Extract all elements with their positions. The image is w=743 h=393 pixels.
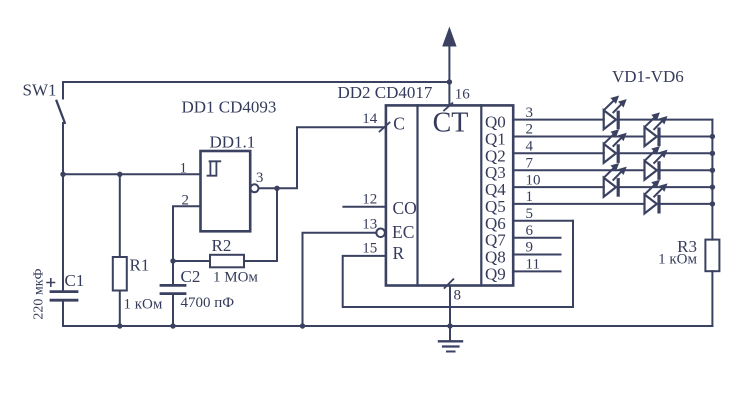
- op-amp U1 : NAND gate DD1.1: [201, 151, 259, 231]
- pin 16 slash: [444, 103, 452, 110]
- svg-text:CO: CO: [393, 198, 417, 218]
- node bus r1: [710, 134, 715, 139]
- svg-text:9: 9: [526, 240, 534, 256]
- wire Q3 row: [513, 169, 712, 171]
- LED VD5: [604, 165, 625, 197]
- node A (SW1 / C1 / pin1): [60, 172, 65, 177]
- svg-text:DD1.1: DD1.1: [210, 133, 256, 152]
- node pin16 / top rail: [447, 79, 452, 84]
- svg-text:CT: CT: [433, 108, 469, 139]
- resistor R2: [173, 188, 277, 267]
- node bus r2: [710, 151, 715, 156]
- svg-text:11: 11: [526, 257, 540, 273]
- node bus r3: [710, 168, 715, 173]
- LED VD4: [645, 148, 666, 180]
- right pin number labels: [526, 105, 541, 273]
- node pin13 bottom: [300, 323, 305, 328]
- wire pin1 rail: [63, 173, 201, 175]
- node R2/C2/pin2: [170, 258, 175, 263]
- LED VD2: [645, 114, 666, 146]
- svg-text:12: 12: [362, 192, 377, 208]
- pin 8 slash: [445, 279, 454, 288]
- wire pin16 / power: [448, 45, 450, 105]
- svg-text:1 МОм: 1 МОм: [213, 270, 258, 286]
- svg-text:Q9: Q9: [485, 264, 506, 283]
- node output/R2: [274, 186, 279, 191]
- svg-text:C1: C1: [65, 271, 85, 290]
- node R1 bottom: [117, 323, 122, 328]
- svg-text:R1: R1: [130, 256, 150, 275]
- svg-text:13: 13: [362, 217, 377, 233]
- svg-text:4: 4: [526, 139, 534, 155]
- svg-text:1 кОм: 1 кОм: [658, 252, 697, 268]
- capacitor C1: [47, 174, 77, 326]
- LED VD3: [604, 131, 625, 163]
- node bus r5: [710, 201, 715, 206]
- svg-text:EC: EC: [392, 222, 414, 242]
- svg-text:DD2 CD4017: DD2 CD4017: [338, 83, 433, 102]
- pin C slash: [380, 123, 390, 132]
- capacitor C2: [161, 261, 185, 326]
- wire pin8: [449, 286, 451, 327]
- wire pin2: [173, 206, 201, 261]
- node B (R1 top): [117, 172, 122, 177]
- wire bottom rail: [63, 325, 712, 327]
- wire Q9 pin11 stub: [513, 270, 561, 272]
- resistor R1: [113, 174, 127, 326]
- wire top rail: [63, 81, 449, 83]
- svg-text:1: 1: [526, 189, 534, 205]
- svg-text:DD1 CD4093: DD1 CD4093: [182, 98, 277, 117]
- svg-text:6: 6: [526, 223, 534, 239]
- node pin8 / bottom rail: [447, 323, 452, 328]
- svg-text:16: 16: [455, 86, 471, 102]
- LED VD6: [645, 181, 666, 213]
- svg-text:3: 3: [526, 105, 534, 121]
- svg-text:C2: C2: [181, 267, 201, 286]
- wire Q5 row: [513, 203, 712, 205]
- svg-text:7: 7: [526, 155, 534, 171]
- switch SW1: [57, 82, 65, 174]
- svg-text:2: 2: [526, 122, 534, 138]
- svg-text:1: 1: [180, 160, 188, 176]
- svg-text:VD1-VD6: VD1-VD6: [612, 67, 684, 86]
- svg-text:R2: R2: [212, 236, 232, 255]
- wire Q7 pin6 stub: [513, 237, 561, 239]
- wire pin 13 to ground rail: [303, 233, 377, 326]
- EC bubble: [376, 229, 385, 238]
- wire Q4 row: [513, 186, 712, 188]
- power arrow: [442, 27, 456, 47]
- svg-text:3: 3: [256, 170, 264, 186]
- IC DD2 CD4017: [386, 105, 513, 285]
- svg-text:1 кОм: 1 кОм: [124, 297, 163, 313]
- wire Q8 pin9 stub: [513, 254, 561, 256]
- svg-text:C: C: [393, 114, 405, 134]
- node C2 bottom: [170, 323, 175, 328]
- wire Q2 row: [513, 152, 712, 154]
- wire Q6 pin5: [513, 220, 573, 222]
- wire Q1 row: [513, 136, 712, 138]
- svg-text:8: 8: [454, 288, 462, 304]
- wire Q0 row: [513, 119, 712, 121]
- Q labels: [485, 113, 506, 284]
- resistor R3: [705, 240, 719, 326]
- wire LED bus: [711, 120, 713, 240]
- svg-text:15: 15: [362, 241, 377, 257]
- ground: [439, 326, 462, 352]
- svg-text:SW1: SW1: [23, 81, 57, 100]
- svg-text:R: R: [393, 243, 405, 263]
- svg-text:5: 5: [526, 206, 534, 222]
- wire pin 12 stub: [343, 206, 386, 208]
- LED VD1: [604, 97, 625, 129]
- svg-text:10: 10: [526, 172, 541, 188]
- svg-text:4700 пФ: 4700 пФ: [181, 295, 235, 311]
- svg-text:220 мкФ: 220 мкФ: [32, 268, 47, 319]
- svg-text:14: 14: [362, 111, 378, 127]
- node bus r4: [710, 184, 715, 189]
- wire pin 15 reset loop: [343, 221, 573, 307]
- wire DD1.1 output to pin C: [259, 127, 386, 188]
